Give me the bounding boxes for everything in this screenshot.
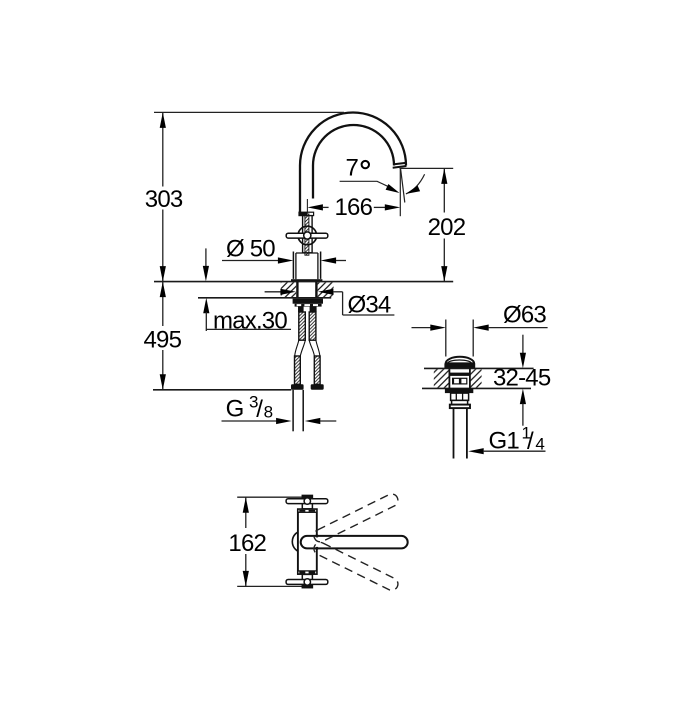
basin top line xyxy=(424,367,534,369)
outlet tilted 7deg line xyxy=(401,169,405,203)
drain tailpipe xyxy=(453,408,455,458)
spout junction marks xyxy=(316,535,318,538)
cross handle outer circle xyxy=(298,226,317,245)
solid spout top view xyxy=(301,536,408,549)
svg-text:4: 4 xyxy=(535,434,544,453)
drain neck xyxy=(448,368,450,388)
basin bottom line xyxy=(422,387,531,389)
drain witness lines xyxy=(445,320,447,357)
supply hose upper left xyxy=(299,312,306,340)
counter bottom line xyxy=(198,297,331,299)
bottom handle hub xyxy=(304,579,310,585)
top view extension line upper xyxy=(237,496,303,498)
supply pipe below xyxy=(292,390,294,432)
mounting nut xyxy=(293,299,323,304)
supply studs xyxy=(298,307,304,313)
supply hose upper right xyxy=(309,312,316,340)
svg-text:303: 303 xyxy=(145,186,183,213)
svg-text:Ø34: Ø34 xyxy=(348,291,391,318)
7deg angle arc xyxy=(406,174,425,194)
drain cap collar xyxy=(444,363,475,368)
cartridge stem hatched xyxy=(305,214,309,255)
drain locknut xyxy=(445,388,473,393)
escutcheon circle top view xyxy=(292,531,314,553)
dimension 32-45 xyxy=(522,335,524,353)
svg-text:Ø63: Ø63 xyxy=(503,302,546,329)
drain push cap dome xyxy=(446,357,474,364)
svg-text:166: 166 xyxy=(335,194,373,221)
extension line top xyxy=(154,111,344,113)
body cylinder xyxy=(292,252,294,279)
outlet vertical axis line xyxy=(399,169,401,217)
mounting shank xyxy=(296,282,298,298)
drain step xyxy=(452,400,468,404)
body base dark band xyxy=(291,279,322,282)
spout outlet face xyxy=(393,166,407,168)
top handle hub xyxy=(304,498,310,504)
svg-text:162: 162 xyxy=(228,530,266,557)
svg-text:max.30: max.30 xyxy=(213,307,287,334)
hose connector right xyxy=(314,356,320,384)
counter hatch right xyxy=(318,282,334,297)
top handle bar xyxy=(286,499,328,504)
7deg leader xyxy=(340,181,389,187)
dimension diameter 34 xyxy=(265,291,281,293)
dimension 166 xyxy=(307,204,323,210)
bottom handle block xyxy=(302,574,312,587)
dimension 162 xyxy=(245,497,247,528)
basin hatch left xyxy=(434,369,450,388)
outlet extension line xyxy=(400,167,454,169)
body top view xyxy=(298,509,317,574)
svg-text:8: 8 xyxy=(264,402,273,421)
hose cap right xyxy=(311,384,324,389)
cartridge housing xyxy=(303,216,313,253)
dashed swung spout lower xyxy=(312,540,400,592)
cross handle hub circle xyxy=(304,232,311,239)
spout riser right edge xyxy=(312,166,314,199)
svg-text:G: G xyxy=(226,396,244,423)
counter hatch left xyxy=(281,282,296,297)
cross handle bar xyxy=(286,233,328,238)
dimension 202 xyxy=(443,168,445,212)
top handle block xyxy=(302,495,312,508)
body top dark band xyxy=(299,212,314,215)
dimension 303 xyxy=(162,112,164,186)
basin hatch right xyxy=(470,369,482,388)
horseshoe washer xyxy=(295,304,322,307)
bottom handle bar xyxy=(286,580,328,585)
faucet spout outer arc xyxy=(300,113,406,166)
svg-text:32-45: 32-45 xyxy=(493,365,551,392)
svg-text:Ø 50: Ø 50 xyxy=(226,236,275,263)
spout axis extension line xyxy=(306,199,308,213)
body cap band top xyxy=(298,509,317,512)
svg-text:202: 202 xyxy=(428,214,466,241)
svg-text:495: 495 xyxy=(144,326,182,353)
bottom reference line xyxy=(153,389,291,391)
body cap band bottom xyxy=(298,571,317,574)
svg-text:7: 7 xyxy=(346,155,359,182)
counter top line xyxy=(154,281,453,283)
hose curves xyxy=(295,340,299,356)
faucet spout inner arc xyxy=(313,125,394,166)
hose connector left xyxy=(295,356,301,384)
dashed swung spout upper xyxy=(312,492,400,544)
dimension 495 xyxy=(162,282,164,326)
dimension diameter 63 xyxy=(412,327,432,329)
dimension max.30 xyxy=(205,248,207,268)
hose cap left xyxy=(291,384,304,389)
drain castellated section xyxy=(451,393,469,400)
spout riser left edge xyxy=(299,166,301,213)
drain overflow window xyxy=(452,378,467,385)
top view extension line lower xyxy=(237,585,302,587)
